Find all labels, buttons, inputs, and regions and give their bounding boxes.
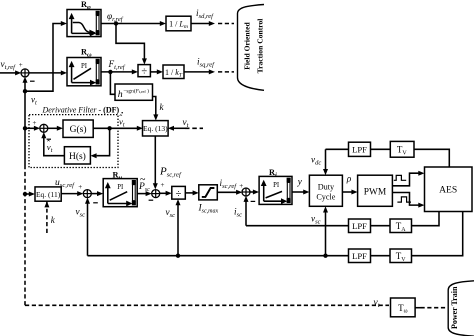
wire v_sc into divider [176,199,181,256]
label vhat_t [47,138,53,153]
junction dot F branch [108,70,112,74]
summing junction S_i [242,188,250,196]
svg-text:Derivative Filter - (DF): Derivative Filter - (DF) [42,106,120,115]
wire v_t feedback vertical [23,77,28,306]
wire R_u to S_P [137,191,152,196]
junction dot v_t to Eq11 [23,192,27,196]
label k (Eq11) [51,215,56,225]
FOTC brace [238,5,265,91]
summing junction S_P [152,190,160,198]
wire k from h to Eq13 [153,97,159,121]
wire i_sc,ref [217,190,242,195]
svg-text:PI: PI [273,182,280,189]
wire DF junction to G [48,126,64,131]
junction dot v_t to R_phi [23,89,27,93]
wire y [292,190,309,195]
label v_dc [311,155,321,167]
wire LPF mid to S_i [246,225,349,227]
block R_u [103,179,137,207]
pulse glyph upper [394,175,406,180]
label minus at S_P [149,199,154,201]
block T_V top [390,141,414,157]
junction dot v_sc duty [323,254,327,258]
block Eq. (13) [143,121,169,136]
label rho [346,175,352,185]
wire i_sc into S_i [244,196,249,226]
pulse glyph lower [397,197,411,202]
label R_i [269,168,277,179]
block T_omega [391,298,416,317]
wire T_A to LPF mid [371,225,391,227]
label plus at S_P [161,181,165,189]
summing junction S1 [21,69,29,77]
svg-text:AES: AES [439,185,457,196]
svg-text:Cycle: Cycle [316,193,335,202]
label Field Oriented (rotated) [243,22,252,70]
svg-text:Traction Control: Traction Control [256,19,265,74]
block saturation [199,185,218,200]
block LPF top [349,142,371,156]
wire AES top to T_V [414,149,449,167]
summing junction S_u [83,190,91,198]
block LPF mid [349,219,371,233]
wire AES bottom to T_A [412,212,440,226]
wire v_sc net [88,255,349,257]
svg-text:−sgn(Ft,ref ): −sgn(Ft,ref ) [123,87,149,95]
svg-text:+: + [19,61,23,69]
label i_sc [234,207,242,219]
svg-text:LPF: LPF [352,221,367,231]
wire phi_r,ref [101,21,166,26]
wire into Eq11 [25,192,35,197]
svg-text:Eq. (13): Eq. (13) [143,124,168,133]
wire AES bottom to T_V bot [412,212,463,256]
summing junction DF [40,124,48,132]
label i_sc,ref [220,178,238,190]
label P~_sc [138,174,150,193]
block divider flux [138,65,150,78]
label v_t (bottom) [374,298,380,309]
label v_sc (divider) [166,207,176,219]
block R_i [259,176,292,204]
svg-text:PI: PI [81,63,88,70]
wire divider to saturation [185,190,199,195]
junction dot DF input [23,126,27,130]
wire i_sq,ref [184,69,215,74]
wire v_t to R_phi [25,21,67,91]
label phi_r,ref [107,11,124,23]
label i_sq,ref [197,56,215,68]
wire PWM lower to AES [392,193,424,208]
wire F to h block [110,72,115,94]
wire v_sc into S_u [85,198,90,256]
label k (h) [160,102,165,112]
power train brace [448,281,474,336]
block Eq. (11) [35,187,61,201]
svg-text:÷: ÷ [176,189,182,200]
wire H to DF junction [41,132,64,156]
label minus at DF junction [47,138,51,140]
label F_t,ref [108,59,126,71]
wire v_t,ref input [0,70,21,75]
svg-text:LPF: LPF [352,251,367,261]
wire v_t dashed into Eq13 [168,126,203,131]
svg-text:~: ~ [140,174,146,185]
derivative filter dotted box [29,115,118,168]
wire v_dc into Duty Cycle [323,149,328,175]
svg-text:+: + [33,119,37,127]
svg-text:ρ: ρ [346,175,352,185]
wire S_u to R_u [91,191,103,196]
label plus at S_i [239,182,243,190]
block Duty Cycle [309,175,342,206]
block T_A [390,219,412,233]
wire S_i to R_i [250,190,259,195]
label minus at S_u [93,202,98,204]
svg-text:Power Train: Power Train [450,286,459,329]
svg-text:Duty: Duty [318,183,335,192]
svg-text:H(s): H(s) [69,151,86,162]
label Power Train (rotated) [450,286,459,329]
label minus at S_i [251,200,256,202]
wire v_sc into Duty Cycle [323,206,328,255]
block AES [425,167,473,212]
wire G output to Eq13 [93,126,143,131]
label P_sc,ref [159,166,182,179]
wire i_sd,ref [191,21,215,26]
label v_t (Eq13) [183,117,189,129]
wire dashed to FOTC (sd) [218,23,234,25]
block G(s) [63,120,93,137]
label v_t,ref [1,59,17,71]
wire P_sc,ref [153,136,158,189]
svg-text:+: + [78,183,82,191]
label i_sd,ref [196,8,214,20]
wire S1 to R_omega [29,70,67,75]
wire S_P to divider [160,191,172,196]
wire dashed to FOTC (sq) [218,71,234,73]
label v_sc (Duty Cycle) [311,214,321,226]
block h^-sgn [115,84,153,100]
block PWM [358,175,393,206]
svg-text:·: · [121,109,124,119]
wire into DF junction [25,126,40,131]
label plus at S1 [19,61,23,69]
wire u_sc,ref [61,191,83,196]
svg-text:÷: ÷ [141,67,147,78]
svg-text:G(s): G(s) [70,124,87,135]
svg-text:h: h [118,89,123,100]
block divider main [172,186,186,199]
wire k dashed into Eq11 [44,201,49,233]
block 1/Lm [166,16,191,31]
label R_omega [81,48,92,59]
label plus at DF junction [33,119,37,127]
label R_u [113,171,123,182]
junction dot v_sc divider [176,254,180,258]
label Traction Control (rotated) [256,19,265,74]
wire T_V to LPF top [371,148,391,150]
label minus at S1 [30,80,35,82]
wire F_t,ref [101,69,138,74]
block R_phi [67,10,101,37]
junction dot G output [107,126,111,130]
label I_sc,max [198,204,219,215]
wire T_omega to power train [415,307,448,309]
label v_t (feedback) [31,95,37,107]
block T_V bottom [390,249,412,263]
junction dot phi branch [114,21,118,25]
svg-text:Field Oriented: Field Oriented [243,22,252,70]
label plus at S_u [78,183,82,191]
svg-text:+: + [239,182,243,190]
label Derivative Filter (DF) [42,106,120,115]
label v_sc (S_u) [76,207,86,219]
label R_phi [81,0,91,11]
wire divider to 1/kT [150,69,163,74]
wire PWM upper to AES [392,171,424,186]
svg-text:PWM: PWM [364,188,387,198]
wire G to H feedback [90,128,109,158]
wire phi to divider [116,24,147,65]
block H(s) [64,147,90,164]
wire LPF top to v_dc [326,148,349,150]
wire T_V bot to LPF bot [371,255,391,257]
label vdot-hat_t [119,109,125,128]
block 1/kT [163,65,184,79]
svg-text:PI: PI [117,184,124,191]
svg-text:ˆ: ˆ [47,138,50,148]
svg-text:Eq. (11): Eq. (11) [36,190,61,199]
svg-text:LPF: LPF [352,145,367,155]
svg-text:+: + [161,181,165,189]
label u_sc,ref [55,177,75,189]
label y [297,177,303,187]
wire rho [342,190,357,195]
wire v_t dashed bottom [25,304,389,306]
block R_omega [67,58,101,86]
block LPF bottom [349,249,371,263]
